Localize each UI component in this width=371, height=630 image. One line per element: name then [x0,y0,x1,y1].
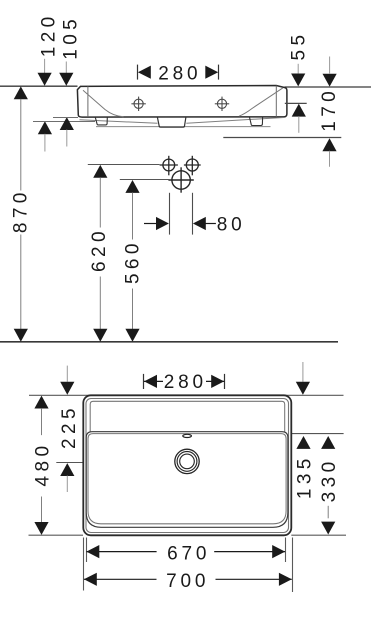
bowl inner line (plan) [88,434,286,524]
svg-text:700: 700 [166,571,209,592]
wire wall/rim reference line left [0,85,78,87]
tap hole large center [168,167,193,192]
wire rim reference line right [285,86,371,88]
svg-text:170: 170 [319,87,340,132]
tap hole small left [160,156,178,176]
drain inner circle [180,454,195,469]
dim 870 [10,86,31,341]
deck inner contour (plan) [90,401,285,432]
bottom reference line left [29,534,84,536]
right foot [250,117,263,125]
svg-text:80: 80 [217,214,246,235]
basin outline (side view) [77,86,287,118]
reference line 225 [56,462,83,464]
svg-text:105: 105 [60,15,81,60]
outer rect (plan) [83,395,291,535]
dim 700 [84,538,293,593]
bottom reference line right [291,534,346,536]
svg-text:120: 120 [39,12,60,57]
svg-text:620: 620 [89,227,110,272]
svg-text:135: 135 [294,454,315,499]
svg-text:670: 670 [167,543,210,564]
bowl section diagonal right [239,88,283,116]
underside slope line right [186,118,283,124]
svg-text:280: 280 [164,372,207,393]
overflow slot [183,434,192,437]
dim 560 [120,180,169,342]
underside lower edge line [96,126,271,128]
drain middle circle [177,452,197,472]
dim 80 [144,193,246,236]
wall fixing hole left [131,97,145,111]
dim 135 [294,362,315,499]
dim 225 [59,366,80,492]
left foot [95,117,107,125]
svg-text:225: 225 [59,404,80,449]
floor line [0,341,338,343]
svg-text:330: 330 [319,457,340,502]
dim 170 [223,57,341,167]
underside slope line left [80,120,158,124]
top reference line extended [29,394,344,396]
reference line 135/330 [288,433,344,435]
drain stub [157,117,186,127]
svg-text:870: 870 [10,188,31,233]
svg-text:280: 280 [158,64,201,85]
inner rim line (plan) [86,399,289,533]
dim 620 [88,165,160,342]
wall fixing hole right [215,97,229,111]
tap hole small right [184,156,201,176]
dim 280 side view [138,64,219,85]
dim 670 [86,538,285,565]
dim 120 [33,12,95,151]
dim 480 [33,396,54,535]
svg-text:480: 480 [33,442,54,487]
drain outer circle [175,449,199,473]
basin inner wall line left [87,86,89,117]
basin inner wall line right [275,86,277,117]
dim 55 [285,31,310,133]
dim 280 plan view [144,372,225,393]
bowl outline (plan) [86,432,288,528]
dim 330 [319,436,340,535]
bowl section diagonal left [83,90,124,117]
dim 105 [53,15,81,147]
svg-text:560: 560 [122,239,143,284]
svg-text:55: 55 [289,31,310,61]
